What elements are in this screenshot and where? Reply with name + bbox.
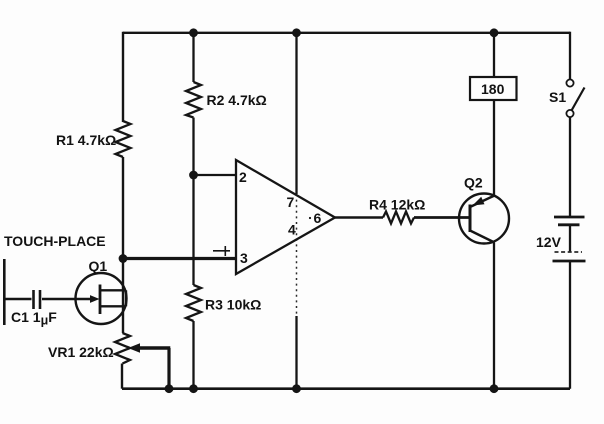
wire R4 to Q2 base <box>414 216 470 219</box>
wire op-amp supply line lower (pin 4 to bottom rail) <box>295 316 297 389</box>
resistor 180 ohm box <box>470 77 517 100</box>
junction dot Q2 collector at bottom rail <box>490 384 499 393</box>
resistor R3 <box>186 285 261 321</box>
node B junction dot (R2/R3 divider to pin 2) <box>189 171 198 180</box>
potentiometer VR1 22k ohm <box>48 333 170 389</box>
wire left rail upper (top rail to R1) <box>122 32 124 122</box>
wire op-amp output (pin 6) to R4 <box>335 216 383 218</box>
wire 180 resistor to Q2 emitter <box>493 100 495 196</box>
wire left rail middle (R1 to VR1, through node A and Q1) <box>122 157 124 333</box>
wire pin2 wire (node B to op-amp inverting input) <box>194 174 237 176</box>
svg-text:7: 7 <box>287 194 295 210</box>
wire R2 to R3 middle segment (through pin-2 node) <box>192 118 194 286</box>
junction dot VR1 wiper at bottom rail <box>165 384 174 393</box>
svg-text:R1 4.7kΩ: R1 4.7kΩ <box>56 132 116 148</box>
wire bottom rail ground return <box>122 387 570 390</box>
svg-text:TOUCH-PLACE: TOUCH-PLACE <box>4 233 106 249</box>
svg-text:R2 4.7kΩ: R2 4.7kΩ <box>207 92 267 108</box>
touch plate electrode <box>3 259 6 325</box>
capacitor C1 1uF <box>11 290 57 328</box>
svg-text:4: 4 <box>288 222 296 238</box>
wire battery negative to bottom rail <box>569 261 571 389</box>
wire top rail V+ <box>123 32 570 34</box>
junction dot R3 at bottom rail <box>189 384 198 393</box>
switch S1 <box>549 79 585 117</box>
wire R3 lower to bottom rail <box>192 321 194 389</box>
battery B1 12V <box>536 217 586 261</box>
svg-text:3: 3 <box>240 250 248 266</box>
junction dot R2 line top rail <box>189 28 198 37</box>
wire left rail lower (VR1 to bottom rail) <box>121 364 123 389</box>
wire touch plate to C1 <box>4 298 31 300</box>
svg-text:R4 12kΩ: R4 12kΩ <box>369 197 425 213</box>
svg-text:2: 2 <box>239 169 247 185</box>
label TOUCH-PLACE <box>4 233 106 249</box>
wire R2 line upper <box>192 33 194 82</box>
wire S1 to battery positive <box>569 117 571 217</box>
transistor Q2 PNP <box>459 175 509 244</box>
junction dot op-amp supply line at bottom rail <box>292 384 301 393</box>
wire op-amp supply line upper (pin 7) <box>295 33 297 194</box>
svg-text:VR1 22kΩ: VR1 22kΩ <box>48 344 114 360</box>
svg-text:Q2: Q2 <box>464 175 483 191</box>
wire top rail to 180 resistor <box>493 33 495 77</box>
svg-text:6: 6 <box>314 210 322 226</box>
op-amp U1 triangle <box>236 160 335 274</box>
resistor R2 <box>186 82 267 118</box>
svg-text:180: 180 <box>481 81 505 97</box>
svg-text:Q1: Q1 <box>89 258 108 274</box>
resistor R1 <box>56 121 131 157</box>
wire right rail upper (top rail to S1) <box>569 32 571 80</box>
svg-text:12V: 12V <box>536 234 562 250</box>
svg-text:C1 1μF: C1 1μF <box>11 309 57 328</box>
wire op-amp supply line dashed through body (pins 7 and 4) <box>296 194 298 316</box>
wire C1 to Q1 gate <box>42 298 90 300</box>
wire pin3 wire (node A to op-amp non-inverting input) <box>123 257 236 260</box>
resistor R4 <box>369 197 425 224</box>
plus mark at pin 3 <box>213 246 230 256</box>
transistor Q1 FET <box>76 258 127 324</box>
svg-text:R3 10kΩ: R3 10kΩ <box>205 297 261 313</box>
wire Q2 collector to bottom rail <box>493 243 495 389</box>
junction dot Q2 branch at top rail <box>490 28 499 37</box>
svg-text:S1: S1 <box>549 89 566 105</box>
junction dot op-amp supply line at top rail <box>292 28 301 37</box>
node A junction dot (left rail to op-amp pin 3) <box>119 254 128 263</box>
